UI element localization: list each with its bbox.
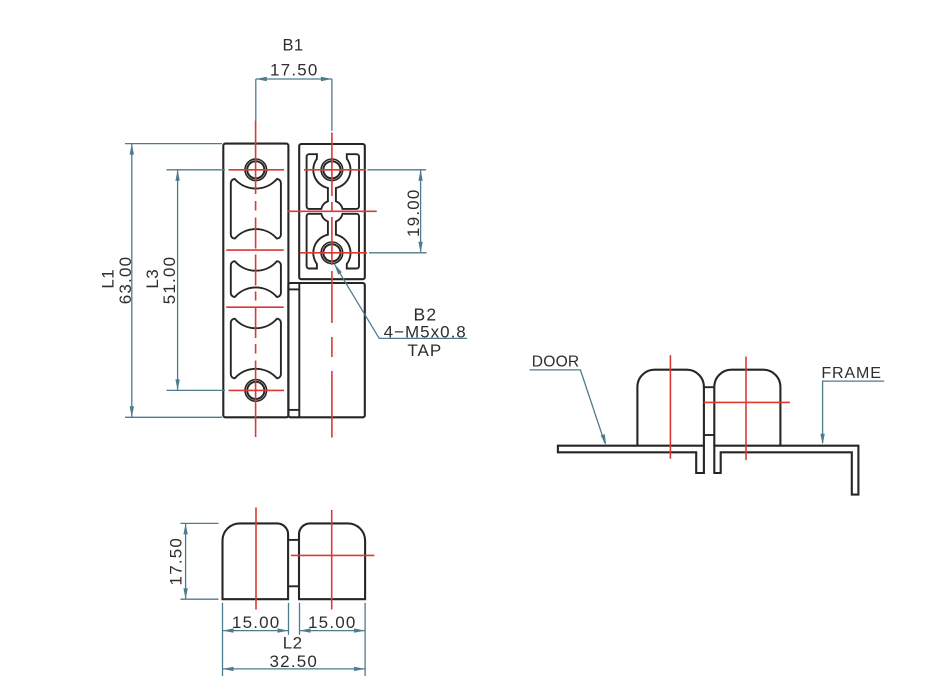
right leaf top-left wing cutout — [307, 154, 328, 209]
side view knuckle gap lower tick — [704, 434, 714, 436]
left leaf vertical centerline — [255, 121, 257, 438]
left leaf bottom tapped hole — [245, 380, 267, 402]
FRAME leader arrowhead — [820, 434, 824, 445]
L3 top extension line — [167, 169, 226, 171]
bottom view right lobe section — [299, 523, 365, 599]
front view right leaf plate outline — [299, 144, 365, 279]
L3 top arrowhead — [175, 170, 179, 181]
bottom view left lobe section — [223, 523, 289, 599]
svg-text:L2: L2 — [283, 633, 303, 652]
bottom view left lobe vertical centerline — [255, 508, 257, 610]
B1 left arrowhead — [256, 77, 267, 81]
svg-text:17.50: 17.50 — [270, 61, 319, 80]
15.00 left dimension line — [223, 630, 289, 632]
svg-text:17.50: 17.50 — [166, 537, 185, 586]
left leaf bottom hole horizontal centerline — [229, 389, 285, 391]
right leaf top tapped hole — [321, 159, 343, 181]
side view door panel with hinge tab — [558, 446, 704, 473]
side view right hinge lobe — [714, 370, 780, 446]
left leaf cutout slot 2 — [231, 261, 281, 297]
svg-text:32.50: 32.50 — [270, 652, 319, 671]
15.00 arrowhead a — [223, 628, 234, 632]
side view right lobe horizontal centerline — [704, 401, 790, 403]
bottom view gap upper tick — [288, 539, 299, 541]
15.00 arrowhead d — [354, 628, 365, 632]
19.00 top arrowhead — [418, 170, 422, 181]
side view frame panel with hinge tab — [714, 446, 858, 495]
19.00 bottom extension line — [369, 252, 427, 254]
B1 dimension line — [256, 78, 332, 80]
15.00 arrowhead b — [278, 628, 289, 632]
side view left lobe vertical centerline — [669, 355, 671, 459]
15.00 arrowhead c — [300, 628, 311, 632]
svg-text:FRAME: FRAME — [821, 365, 882, 382]
right leaf bottom hole horizontal centerline — [300, 252, 367, 254]
right leaf waist horizontal centerline — [288, 210, 377, 212]
L3 dimension line — [177, 170, 179, 391]
svg-text:15.00: 15.00 — [232, 613, 281, 632]
svg-text:4−M5x0.8: 4−M5x0.8 — [384, 323, 467, 342]
bottom view gap lower tick — [288, 585, 299, 587]
L1 bottom extension line — [125, 416, 222, 418]
left leaf waist 2 horizontal centerline — [226, 306, 284, 308]
L3 bottom arrowhead — [175, 379, 179, 390]
15.00 right dimension line — [300, 630, 366, 632]
right leaf top hole horizontal centerline — [304, 169, 366, 171]
right leaf bottom tapped hole — [321, 242, 343, 264]
15.00 extension line b — [288, 603, 290, 635]
19.00 bottom arrowhead — [418, 242, 422, 253]
L1 bottom arrowhead — [130, 406, 134, 417]
15.00 extension line a — [222, 603, 224, 676]
right leaf lower flap bottom notch — [288, 409, 299, 411]
DOOR leader arrowhead — [601, 434, 607, 445]
svg-text:51.00: 51.00 — [160, 256, 179, 305]
32.50 left arrowhead — [223, 667, 234, 671]
bottom view right lobe horizontal centerline — [291, 554, 375, 556]
right leaf lower flap top notch — [288, 288, 299, 290]
svg-text:B1: B1 — [283, 36, 304, 54]
B1 left extension line — [255, 79, 257, 121]
L1 dimension line — [131, 144, 133, 418]
svg-text:15.00: 15.00 — [308, 613, 357, 632]
svg-text:DOOR: DOOR — [532, 353, 580, 370]
svg-text:B2: B2 — [413, 304, 437, 324]
L1 top extension line — [125, 143, 222, 145]
right leaf bottom-left wing cutout — [307, 214, 328, 269]
left leaf top tapped hole — [245, 159, 267, 181]
side view left hinge lobe — [637, 370, 704, 446]
left leaf cutout slot 3 — [231, 319, 281, 379]
right leaf vertical centerline — [331, 133, 333, 438]
DOOR leader line — [530, 370, 605, 443]
15.00 extension line c — [299, 603, 301, 635]
FRAME leader line — [823, 381, 885, 443]
side view knuckle gap upper tick — [704, 386, 714, 388]
15.00 extension line d — [364, 603, 366, 676]
left leaf cutout slot 1 — [231, 179, 281, 239]
L1 top arrowhead — [130, 144, 134, 155]
right leaf lower flap fold line — [298, 283, 300, 417]
32.50 right arrowhead — [354, 667, 365, 671]
B2 leader line — [334, 264, 467, 339]
bottom view right lobe vertical centerline — [331, 510, 333, 610]
17.50 dimension line — [185, 523, 187, 599]
17.50 bottom arrowhead — [183, 588, 187, 599]
side view right lobe vertical centerline — [745, 357, 747, 461]
17.50 bottom extension line — [180, 598, 218, 600]
19.00 dimension line — [420, 170, 422, 253]
left leaf top hole horizontal centerline — [229, 169, 285, 171]
right leaf bottom-right wing cutout — [336, 214, 359, 269]
B2 leader arrowhead — [334, 264, 342, 275]
front view right leaf lower flap outline — [288, 283, 364, 417]
B1 right extension line — [331, 79, 333, 131]
svg-text:TAP: TAP — [407, 341, 442, 360]
front view left leaf outline — [223, 144, 288, 418]
left leaf waist 1 horizontal centerline — [226, 249, 284, 251]
B1 right arrowhead — [321, 77, 332, 81]
right leaf top-right wing cutout — [336, 154, 359, 209]
32.50 dimension line — [223, 668, 366, 670]
svg-text:L1: L1 — [98, 269, 117, 289]
17.50 top arrowhead — [183, 523, 187, 534]
19.00 top extension line — [368, 169, 427, 171]
L3 bottom extension line — [167, 389, 226, 391]
17.50 top extension line — [180, 522, 218, 524]
